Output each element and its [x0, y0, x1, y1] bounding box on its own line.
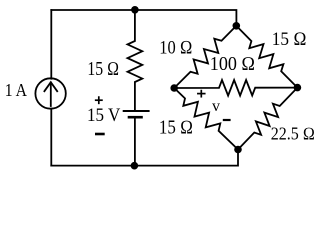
- svg-text:1 A: 1 A: [5, 80, 27, 100]
- current source arrow head: [44, 82, 57, 91]
- svg-text:15 Ω: 15 Ω: [87, 59, 119, 80]
- wire: top rail from left corner to bridge feed corner: [51, 10, 236, 26]
- bridge voltage plus sign: [198, 91, 205, 97]
- node L bridge left junction dot: [170, 84, 178, 92]
- wire: bottom rail to bridge bottom riser: [51, 150, 238, 166]
- battery 15 V long plate: [124, 110, 149, 112]
- svg-text:15 V: 15 V: [87, 105, 121, 126]
- current source arrow shaft: [50, 83, 52, 107]
- svg-text:22.5 Ω: 22.5 Ω: [271, 124, 315, 144]
- wire: left rail lower segment: [50, 109, 52, 166]
- resistor 22.5 ohm bridge bottom-right arm: [238, 88, 297, 150]
- node junction dot top middle: [131, 6, 139, 14]
- current source I1 1 A circle: [35, 78, 65, 108]
- wire: battery to bottom rail: [134, 117, 136, 165]
- resistor 15 ohm middle branch (zigzag) with wire from top rail: [128, 10, 143, 111]
- node junction dot bottom middle: [131, 162, 139, 170]
- svg-text:15 Ω: 15 Ω: [272, 29, 307, 50]
- node T bridge top junction dot: [233, 22, 241, 30]
- svg-text:15 Ω: 15 Ω: [159, 118, 193, 139]
- battery polarity minus sign: [96, 133, 103, 136]
- svg-text:100 Ω: 100 Ω: [210, 54, 256, 75]
- svg-text:v: v: [212, 98, 220, 115]
- svg-text:10 Ω: 10 Ω: [159, 37, 192, 58]
- resistor 15 ohm bridge top-right arm: [236, 26, 297, 88]
- bridge voltage minus sign: [224, 119, 230, 121]
- battery 15 V short plate: [129, 116, 142, 119]
- node R bridge right junction dot: [294, 84, 302, 92]
- resistor 100 ohm bridge middle arm: [174, 80, 297, 96]
- resistor 10 ohm bridge top-left arm: [174, 26, 236, 88]
- wire: left rail upper segment: [50, 10, 52, 79]
- node B bridge bottom junction dot: [234, 146, 242, 154]
- resistor 15 ohm bridge bottom-left arm: [174, 88, 238, 150]
- circuit schematic: 1 A source, 15 V battery branch, resistive bridge: [0, 0, 329, 177]
- battery polarity plus sign: [96, 97, 102, 103]
